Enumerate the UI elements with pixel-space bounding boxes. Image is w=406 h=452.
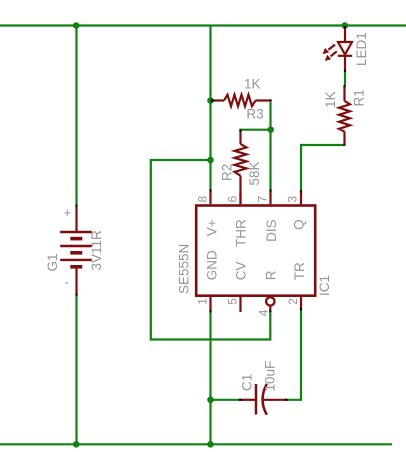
- svg-text:1K: 1K: [244, 77, 261, 92]
- svg-text:R1: R1: [352, 89, 367, 106]
- node junction dot bottom-left: [73, 441, 80, 448]
- resistor R2: [235, 132, 247, 205]
- svg-text:R2: R2: [220, 164, 235, 181]
- node junction dot bottom GND column: [207, 441, 214, 448]
- svg-text:+: +: [64, 205, 72, 220]
- wire DIS node to R2 top: [241, 130, 272, 132]
- LED light arrows heads: [323, 48, 332, 61]
- resistor R1: [339, 87, 350, 144]
- svg-text:3: 3: [286, 196, 300, 203]
- node junction dot top-right LED: [342, 22, 349, 29]
- pin connection ticks: [77, 26, 346, 400]
- wire pin 2 TR to C1 right: [287, 310, 301, 400]
- capacitor C1: [241, 384, 286, 415]
- svg-text:G1: G1: [45, 253, 60, 271]
- svg-text:R3: R3: [246, 107, 263, 122]
- pin 5 stub: [239, 296, 241, 312]
- pin 4 stub: [269, 306, 271, 310]
- svg-text:4: 4: [257, 309, 271, 316]
- svg-text:5: 5: [226, 298, 240, 305]
- svg-text:8: 8: [196, 196, 210, 203]
- svg-text:1K: 1K: [323, 91, 338, 108]
- svg-text:R: R: [264, 270, 279, 280]
- wire R3 right drop to DIS node: [269, 102, 271, 190]
- wire left battery column upper: [75, 26, 77, 205]
- svg-text:CV: CV: [234, 261, 249, 280]
- svg-text:IC1: IC1: [317, 275, 332, 296]
- wire pin 1 GND down to bottom rail: [209, 312, 211, 445]
- pin 3 stub: [300, 192, 302, 204]
- wire C1 left to GND column: [211, 399, 240, 401]
- svg-text:TR: TR: [292, 262, 307, 280]
- node junction dot top-left: [73, 22, 80, 29]
- resistor R3: [213, 95, 270, 106]
- svg-text:1: 1: [196, 298, 210, 305]
- wire reset wrap-around (node to pin 4): [151, 160, 270, 340]
- svg-text:SE555N: SE555N: [177, 244, 192, 294]
- op IC1 SE555N body: [196, 206, 315, 296]
- pin 8 stub: [209, 192, 211, 205]
- node junction dot DIS: [267, 126, 274, 133]
- svg-text:DIS: DIS: [264, 219, 279, 242]
- pin 2 stub: [300, 296, 302, 309]
- svg-text:-: -: [65, 275, 69, 290]
- wire top V+ rail: [0, 24, 406, 26]
- svg-text:6: 6: [226, 196, 240, 203]
- svg-text:GND: GND: [205, 250, 220, 280]
- node junction dot R3 left: [207, 97, 214, 104]
- svg-text:10uF: 10uF: [263, 361, 278, 392]
- battery G1: [60, 206, 92, 294]
- svg-text:2: 2: [286, 298, 300, 305]
- pin 6 stub: [239, 192, 241, 205]
- svg-text:C1: C1: [240, 374, 255, 391]
- wire bottom GND rail: [0, 443, 392, 445]
- svg-text:7: 7: [256, 196, 270, 203]
- LED LED1: [328, 28, 352, 71]
- svg-text:58K: 58K: [247, 161, 262, 185]
- pin 4 bubble: [266, 297, 274, 305]
- wire left battery column lower: [75, 295, 77, 444]
- svg-text:3V11R: 3V11R: [89, 230, 104, 271]
- pin 1 stub: [209, 296, 211, 311]
- svg-text:LED1: LED1: [354, 32, 369, 66]
- node junction dot reset wrap: [207, 157, 214, 164]
- wire V+ column to pin 8: [209, 26, 211, 191]
- wire LED cathode to R1: [344, 71, 346, 86]
- svg-text:THR: THR: [234, 219, 249, 247]
- svg-text:V+: V+: [205, 219, 220, 236]
- node junction dot C1 left: [207, 397, 214, 404]
- svg-text:Q: Q: [292, 219, 307, 230]
- pin 7 stub: [269, 192, 271, 205]
- wire R1 bottom to Q pin 3: [301, 145, 345, 191]
